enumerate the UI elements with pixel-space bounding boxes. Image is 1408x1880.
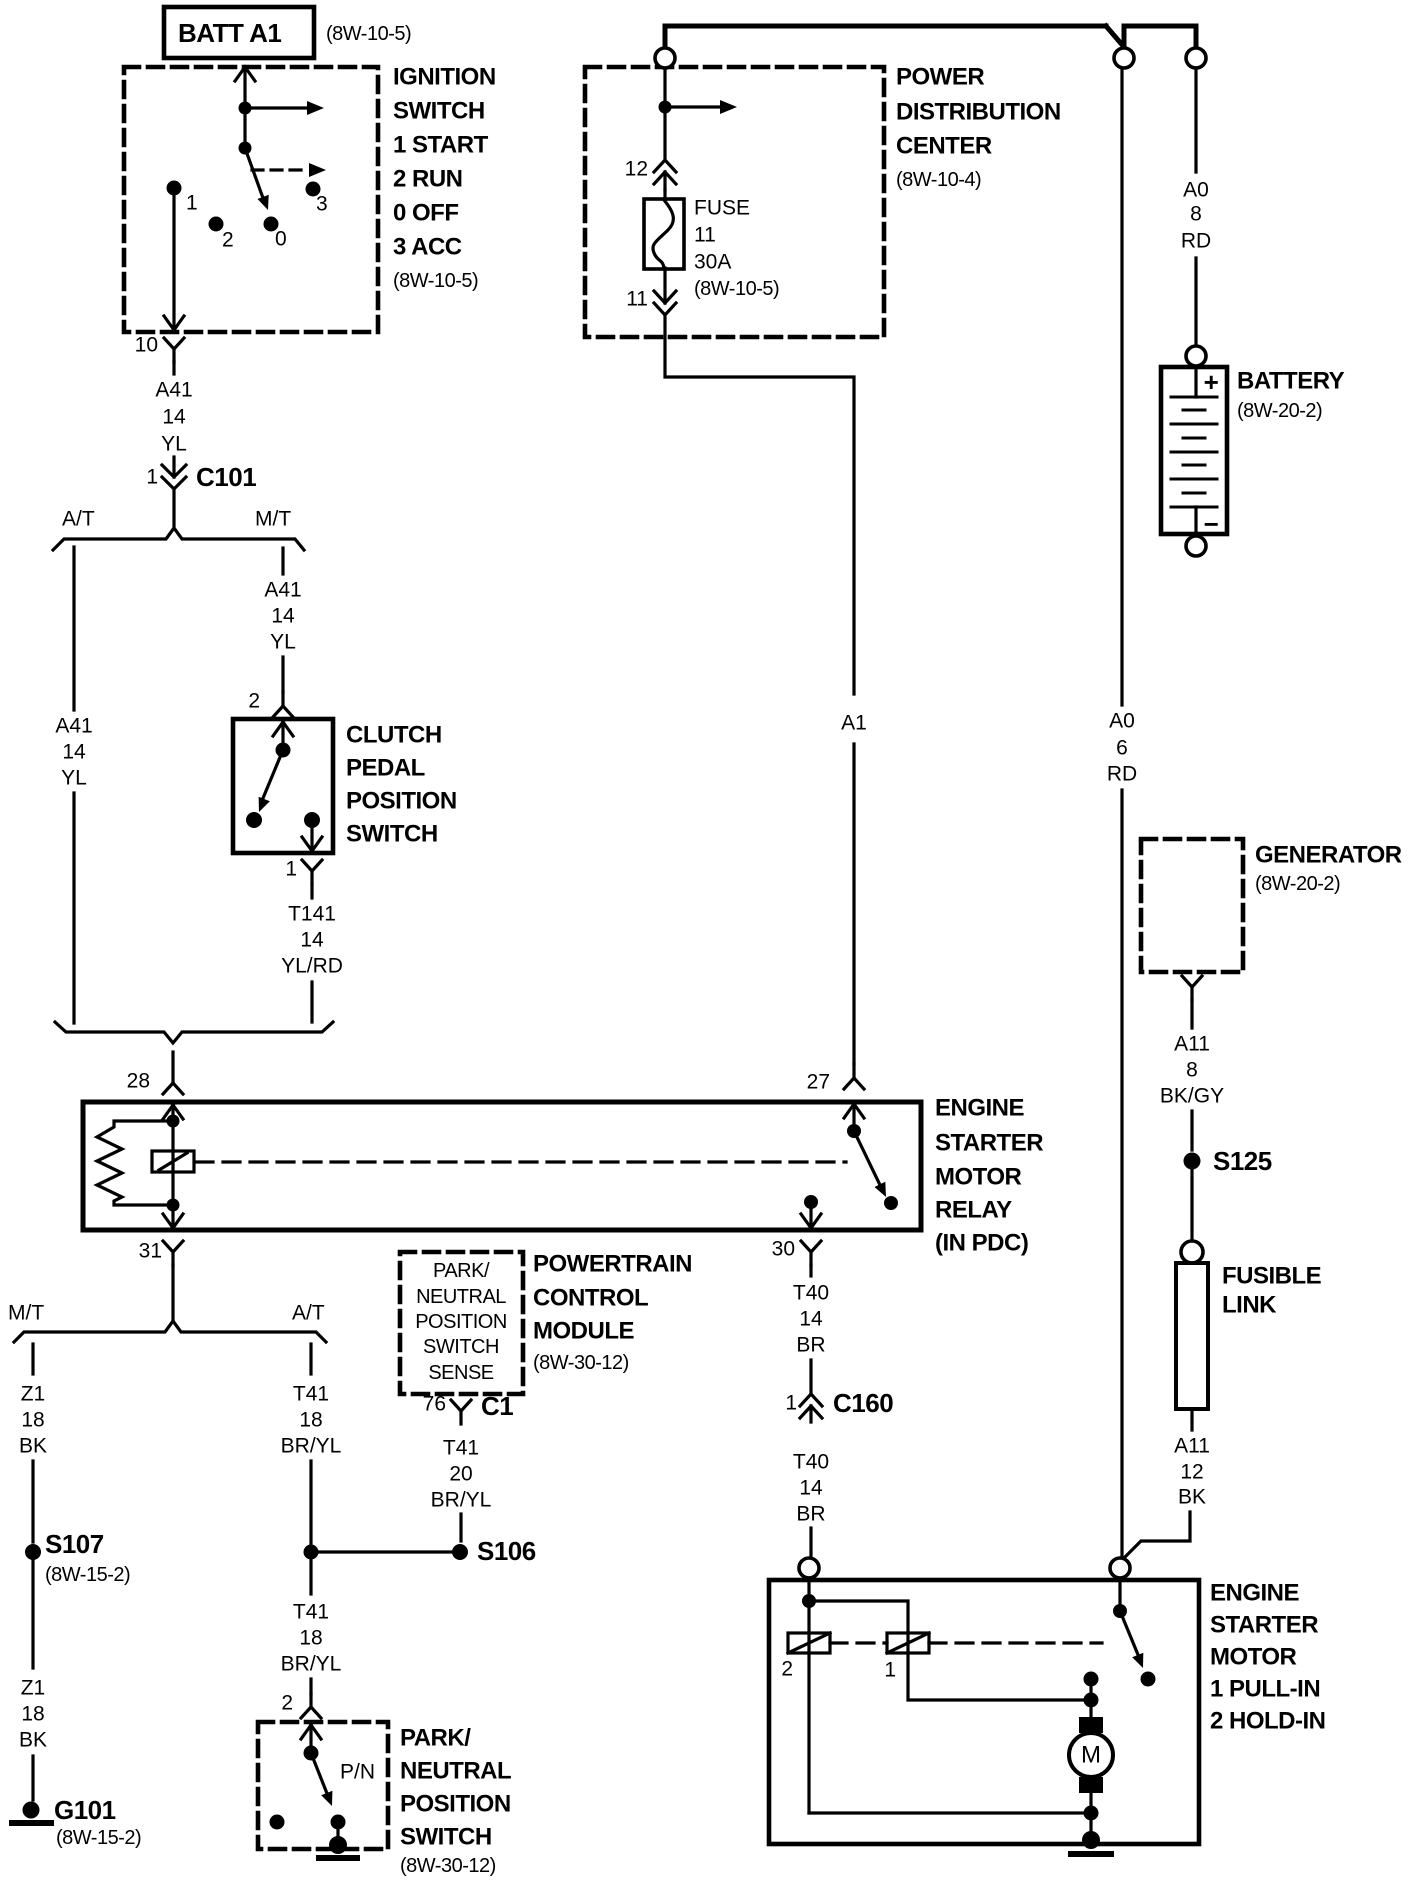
BATT A1 source box: [164, 7, 314, 58]
svg-text:18: 18: [299, 1409, 322, 1432]
svg-text:14: 14: [300, 929, 324, 952]
svg-text:30A: 30A: [694, 251, 731, 274]
relay switch entry arrow pin 27: [844, 1104, 864, 1128]
ignition switch wiper arm to position 0: [245, 148, 263, 198]
svg-text:YL: YL: [161, 433, 187, 456]
wire label Z1 18 BK lower: [19, 1677, 47, 1752]
wire to connector C101: [172, 457, 175, 477]
svg-text:(8W-15-2): (8W-15-2): [56, 1827, 141, 1849]
svg-text:28: 28: [127, 1070, 150, 1093]
wire T40 to connector C160: [809, 1360, 812, 1422]
wire ignition run output arrow: [245, 106, 308, 109]
svg-text:PARK/: PARK/: [400, 1725, 471, 1752]
wire bus segment to battery drop: [1124, 26, 1196, 47]
svg-text:S125: S125: [1213, 1146, 1272, 1176]
svg-text:1 START: 1 START: [393, 132, 489, 159]
wire A/T branch upper: [72, 547, 75, 710]
svg-text:18: 18: [299, 1627, 322, 1650]
node T41 junction at S106: [304, 1545, 319, 1560]
wire A0 8 RD lower segment: [1194, 258, 1197, 346]
svg-text:BR: BR: [796, 1334, 825, 1357]
connector pin 11 double chevron down: [654, 291, 676, 315]
clutch switch name label: [346, 722, 457, 848]
svg-text:(8W-10-5): (8W-10-5): [326, 23, 411, 45]
wire solenoid feed inside: [807, 1578, 810, 1598]
contact clutch switch lower left: [246, 812, 262, 828]
svg-text:GENERATOR: GENERATOR: [1255, 842, 1402, 869]
svg-text:Z1: Z1: [21, 1383, 46, 1406]
svg-text:CENTER: CENTER: [896, 133, 992, 160]
svg-text:IGNITION: IGNITION: [393, 64, 496, 91]
ignition switch name label: [393, 64, 496, 293]
wire label A41 14 YL A/T branch: [55, 715, 92, 790]
svg-text:ENGINE: ENGINE: [935, 1095, 1025, 1122]
motor M1: [1069, 1733, 1113, 1777]
svg-text:11: 11: [626, 288, 648, 311]
wire from junction to connector 12: [663, 110, 666, 190]
svg-text:BK: BK: [19, 1729, 47, 1752]
svg-text:BR: BR: [796, 1503, 825, 1526]
contact position 3 ACC: [306, 182, 321, 197]
svg-text:2: 2: [222, 229, 234, 252]
svg-text:(8W-20-2): (8W-20-2): [1255, 873, 1340, 895]
battery internal stem bottom: [1194, 507, 1197, 534]
battery box: [1161, 367, 1227, 534]
node battery bus connector ring left: [1114, 48, 1134, 68]
svg-text:POSITION: POSITION: [346, 788, 457, 815]
wire PDC bus corner drop: [663, 26, 668, 50]
svg-text:(8W-10-4): (8W-10-4): [896, 169, 981, 191]
svg-text:C1: C1: [481, 1391, 513, 1421]
PCM sense label: [415, 1260, 507, 1384]
clutch switch exit arrow pin 1: [302, 826, 322, 851]
wire pull-in coil branch: [809, 1601, 1084, 1700]
svg-text:CONTROL: CONTROL: [533, 1285, 648, 1312]
node solenoid feed junction: [802, 1594, 816, 1608]
wire generator output: [1190, 1000, 1193, 1028]
svg-text:18: 18: [21, 1409, 44, 1432]
wire label Z1 18 BK upper: [19, 1383, 47, 1458]
svg-text:A41: A41: [155, 379, 192, 402]
svg-text:DISTRIBUTION: DISTRIBUTION: [896, 99, 1061, 126]
svg-text:SWITCH: SWITCH: [393, 98, 485, 125]
wire M/T branch Z1 upper: [31, 1344, 34, 1374]
node ignition feed junction upper: [239, 102, 252, 115]
wire label T40 14 BR lower: [793, 1451, 829, 1526]
connector pin 1 Y terminal: [302, 860, 322, 884]
svg-text:T40: T40: [793, 1451, 829, 1474]
power distribution center PDC dashed box: [585, 67, 884, 337]
svg-text:STARTER: STARTER: [1210, 1612, 1318, 1639]
svg-text:(8W-30-12): (8W-30-12): [400, 1855, 496, 1877]
svg-text:2: 2: [248, 690, 260, 713]
node starter solenoid terminal ring: [799, 1558, 819, 1578]
svg-text:1 PULL-IN: 1 PULL-IN: [1210, 1676, 1320, 1703]
svg-text:12: 12: [625, 158, 648, 181]
PDC name label: [896, 64, 1061, 192]
relay name label: [935, 1095, 1043, 1257]
svg-text:1: 1: [785, 1392, 797, 1415]
svg-text:M/T: M/T: [8, 1302, 44, 1325]
connector pin 12 double chevron up: [654, 160, 676, 184]
relay coil wire through: [171, 1121, 174, 1205]
wire label T41 18 BR/YL lower: [281, 1601, 342, 1676]
resistor relay suppression: [97, 1121, 173, 1205]
svg-text:RD: RD: [1181, 230, 1211, 253]
svg-text:MOTOR: MOTOR: [935, 1164, 1022, 1191]
svg-text:14: 14: [799, 1477, 823, 1500]
svg-text:BATTERY: BATTERY: [1237, 368, 1345, 395]
svg-text:(8W-20-2): (8W-20-2): [1237, 400, 1322, 422]
svg-text:BK/GY: BK/GY: [1160, 1085, 1224, 1108]
connector pin 31 Y terminal: [163, 1241, 183, 1265]
connector pin 27 Y terminal inverted: [844, 1064, 864, 1089]
node relay coil top junction: [167, 1115, 180, 1128]
wire Z1 to ground G101: [31, 1756, 34, 1800]
connector generator Y terminal: [1182, 976, 1202, 1000]
svg-text:POWER: POWER: [896, 64, 984, 91]
svg-text:11: 11: [694, 224, 716, 247]
node motor return junction: [1084, 1806, 1099, 1821]
node splice S106: [452, 1544, 468, 1560]
svg-text:2: 2: [781, 1658, 793, 1681]
svg-text:10: 10: [135, 334, 158, 357]
ignition switch dashed box: [124, 67, 378, 332]
contact P/N switch left: [270, 1815, 285, 1830]
svg-text:30: 30: [772, 1238, 795, 1261]
svg-text:1: 1: [186, 192, 198, 215]
relay actuation dashed link: [196, 1160, 846, 1163]
svg-text:POSITION: POSITION: [415, 1311, 507, 1333]
connector pin 30 Y terminal: [801, 1241, 821, 1265]
svg-text:SENSE: SENSE: [428, 1362, 493, 1384]
wire fuse to connector 11: [663, 268, 666, 303]
connector pin 2 Y terminal inverted: [273, 692, 293, 717]
wire label A11 8 BK/GY: [1160, 1033, 1224, 1108]
relay pin 30 exit arrow: [801, 1207, 821, 1228]
wire label T141 14 YL/RD: [281, 903, 343, 978]
wire label A41 14 YL M/T branch: [264, 579, 301, 654]
svg-text:A41: A41: [264, 579, 301, 602]
svg-text:3: 3: [316, 193, 328, 216]
contact starter switch: [1141, 1672, 1156, 1687]
svg-text:BR/YL: BR/YL: [431, 1489, 492, 1512]
svg-text:MOTOR: MOTOR: [1210, 1644, 1297, 1671]
node clutch switch common contact: [276, 743, 291, 758]
wire hold-in coil return run: [809, 1811, 1091, 1814]
wire start contact to pin 10 exit arrow: [164, 195, 184, 330]
node PDC bus connector ring: [655, 48, 675, 68]
contact position 0 OFF: [264, 217, 279, 232]
svg-text:1: 1: [146, 466, 158, 489]
svg-text:1: 1: [884, 1659, 896, 1682]
contact clutch switch lower right: [304, 812, 320, 828]
solenoid coil 2 hold-in: [788, 1633, 830, 1653]
svg-text:(8W-30-12): (8W-30-12): [533, 1352, 629, 1374]
wire label A0 6 RD: [1107, 710, 1137, 786]
svg-text:−: −: [1204, 509, 1219, 539]
svg-text:A/T: A/T: [62, 508, 95, 531]
wire junction to splice S106: [311, 1550, 452, 1553]
wire T40 to starter solenoid: [809, 1528, 812, 1556]
svg-text:ENGINE: ENGINE: [1210, 1580, 1300, 1607]
svg-text:2 HOLD-IN: 2 HOLD-IN: [1210, 1708, 1326, 1735]
fusible link body: [1176, 1263, 1208, 1409]
wire label T40 14 BR upper: [793, 1282, 829, 1357]
svg-text:M: M: [1081, 1742, 1101, 1769]
svg-text:Z1: Z1: [21, 1677, 46, 1700]
node battery negative terminal ring: [1186, 536, 1206, 556]
svg-text:C101: C101: [196, 462, 256, 492]
svg-text:(IN PDC): (IN PDC): [935, 1230, 1028, 1257]
relay coil exit arrow pin 31: [163, 1209, 183, 1228]
svg-text:YL: YL: [270, 631, 296, 654]
node junction in PDC: [659, 101, 672, 114]
contact P/N switch output: [331, 1815, 346, 1830]
park/neutral position switch dashed box: [258, 1722, 388, 1849]
relay coil symbol: [152, 1151, 194, 1172]
svg-text:12: 12: [1180, 1461, 1203, 1484]
engine starter motor box: [769, 1580, 1199, 1844]
wire ignition output to label: [172, 362, 175, 374]
connector pin 10 Y terminal: [164, 338, 184, 362]
node relay switch pivot: [847, 1124, 861, 1138]
wire C1 to splice S106: [459, 1514, 462, 1541]
node relay pin 30 contact: [804, 1195, 818, 1209]
svg-text:14: 14: [271, 605, 295, 628]
wire A11 to splice S125: [1190, 1111, 1193, 1150]
clutch pedal position switch box: [233, 719, 333, 853]
wire pin 30 to label: [809, 1265, 812, 1276]
connector C101 double chevron down: [162, 465, 186, 489]
svg-text:POSITION: POSITION: [400, 1791, 511, 1818]
solenoid actuation dashed link: [830, 1641, 1102, 1644]
svg-text:2 RUN: 2 RUN: [393, 166, 463, 193]
svg-text:8: 8: [1190, 203, 1202, 226]
svg-text:(8W-10-5): (8W-10-5): [694, 278, 779, 300]
generator name label: [1255, 842, 1402, 896]
svg-text:8: 8: [1186, 1059, 1198, 1082]
ground G101: [23, 1802, 40, 1819]
wire pin 31 to lower split: [171, 1265, 174, 1320]
wire motor return: [1089, 1793, 1092, 1813]
fuse F11 body: [644, 199, 684, 269]
svg-text:T41: T41: [293, 1383, 329, 1406]
ground P/N switch case: [329, 1836, 347, 1854]
ignition accessory dashed arrow: [252, 168, 306, 171]
P/N switch entry arrow: [301, 1725, 321, 1747]
svg-text:T41: T41: [443, 1437, 479, 1460]
node relay coil bottom junction: [167, 1199, 180, 1212]
node starter switch pivot: [1113, 1604, 1127, 1618]
svg-text:M/T: M/T: [255, 508, 291, 531]
svg-text:BATT A1: BATT A1: [178, 18, 281, 48]
engine starter motor relay box: [83, 1102, 921, 1230]
starter switch arm: [1120, 1611, 1141, 1662]
svg-text:T41: T41: [293, 1601, 329, 1624]
svg-text:S107: S107: [45, 1529, 104, 1559]
svg-text:14: 14: [162, 406, 186, 429]
P/N switch wiper arm: [311, 1753, 328, 1796]
svg-text:BR/YL: BR/YL: [281, 1435, 342, 1458]
svg-text:0 OFF: 0 OFF: [393, 200, 459, 227]
motor M1 brush terminal bottom: [1079, 1777, 1103, 1793]
svg-text:(8W-15-2): (8W-15-2): [45, 1564, 130, 1586]
node splice S107: [25, 1544, 41, 1560]
wire hold-in coil branch: [807, 1601, 810, 1813]
svg-text:A1: A1: [841, 712, 867, 735]
fuse F11 element: [653, 200, 673, 268]
wire motor feed: [1089, 1679, 1092, 1720]
wire A0 6 RD long run to starter motor: [1120, 790, 1123, 1558]
wire merge to relay pin 28: [171, 1052, 174, 1083]
svg-text:T141: T141: [288, 903, 336, 926]
svg-text:31: 31: [139, 1240, 162, 1263]
svg-text:3 ACC: 3 ACC: [393, 234, 462, 261]
svg-text:POWERTRAIN: POWERTRAIN: [533, 1251, 692, 1278]
svg-text:RELAY: RELAY: [935, 1197, 1012, 1224]
wire M/T branch to clutch switch: [281, 657, 284, 692]
svg-text:SWITCH: SWITCH: [400, 1824, 492, 1851]
node motor feed contact: [1084, 1672, 1099, 1687]
P/N switch name label: [400, 1725, 511, 1878]
svg-text:20: 20: [449, 1463, 472, 1486]
svg-text:0: 0: [275, 228, 287, 251]
wire PDC feed into fuse branch: [663, 68, 666, 104]
svg-text:T40: T40: [793, 1282, 829, 1305]
svg-text:PEDAL: PEDAL: [346, 755, 425, 782]
contact relay switch output: [884, 1196, 898, 1210]
svg-text:PARK/: PARK/: [433, 1260, 490, 1282]
svg-text:BK: BK: [1178, 1486, 1206, 1509]
svg-text:FUSE: FUSE: [694, 197, 750, 220]
fusible link name label: [1222, 1263, 1322, 1319]
wire bus diagonal jog: [1106, 26, 1124, 47]
wire A0 6 RD main feed upper: [1120, 68, 1123, 705]
svg-text:FUSIBLE: FUSIBLE: [1222, 1263, 1322, 1290]
svg-text:76: 76: [423, 1393, 446, 1416]
ignition switch feed arrow to BATT A1: [235, 67, 255, 148]
node P/N switch common contact: [304, 1746, 319, 1761]
svg-text:A11: A11: [1174, 1033, 1210, 1056]
wire top power bus from PDC to battery feed: [665, 24, 1106, 29]
starter motor name label: [1210, 1580, 1326, 1735]
wire label A41 14 YL: [155, 379, 192, 456]
svg-text:SWITCH: SWITCH: [346, 821, 438, 848]
connector pin 2 Y terminal inverted P/N: [301, 1694, 321, 1718]
clutch switch wiper arm: [261, 750, 283, 803]
clutch switch entry arrow: [273, 722, 293, 744]
svg-text:1: 1: [285, 858, 297, 881]
contact position 1 START: [167, 181, 182, 196]
wire connector 12 to fuse: [663, 190, 666, 199]
wire P/N contact to case ground: [336, 1822, 339, 1843]
solenoid coil 1 pull-in: [887, 1633, 929, 1653]
svg-text:A0: A0: [1183, 179, 1209, 202]
svg-text:A0: A0: [1109, 710, 1135, 733]
powertrain control module name label: [533, 1251, 692, 1375]
contact position 2 RUN: [209, 217, 224, 232]
wire A1 down to starter relay pin 27: [852, 744, 855, 1064]
battery internal stem top: [1194, 367, 1197, 397]
wire clutch output lower: [310, 982, 313, 1022]
connector pin 28 Y terminal inverted: [163, 1083, 183, 1094]
svg-text:CLUTCH: CLUTCH: [346, 722, 442, 749]
wire label T41 20 BR/YL: [431, 1437, 492, 1512]
svg-text:LINK: LINK: [1222, 1292, 1277, 1319]
A/T M/T split bracket: [53, 528, 304, 550]
wire A/T branch T41 upper: [309, 1344, 312, 1374]
node splice S125: [1184, 1153, 1201, 1170]
A/T M/T merge bracket: [55, 1022, 333, 1043]
svg-text:(8W-10-5): (8W-10-5): [393, 270, 478, 292]
wire fusible link output: [1190, 1409, 1193, 1430]
connector C1 Y terminal: [451, 1400, 471, 1424]
wire T41 to S106 junction: [309, 1461, 312, 1545]
svg-text:BK: BK: [19, 1435, 47, 1458]
generator dashed box: [1141, 839, 1243, 972]
park/neutral position switch sense dashed box: [400, 1252, 523, 1394]
wire clutch output: [310, 884, 313, 898]
node pull-in coil to motor junction: [1084, 1693, 1099, 1708]
svg-text:+: +: [1204, 367, 1219, 397]
battery name label: [1237, 368, 1345, 423]
relay coil entry arrow pin 28: [163, 1105, 183, 1119]
svg-text:YL/RD: YL/RD: [281, 955, 343, 978]
svg-text:STARTER: STARTER: [935, 1130, 1043, 1157]
wire Z1 to splice S107: [31, 1461, 34, 1542]
wire label A11 12 BK: [1174, 1435, 1210, 1509]
wire junction down to P/N switch: [309, 1560, 312, 1594]
ground starter motor case: [1082, 1831, 1100, 1849]
wire to starter case ground: [1089, 1813, 1092, 1838]
svg-text:YL: YL: [61, 767, 87, 790]
connector C160 double chevron up: [800, 1394, 822, 1418]
svg-text:P/N: P/N: [340, 1761, 375, 1784]
svg-text:SWITCH: SWITCH: [423, 1336, 499, 1358]
svg-text:RD: RD: [1107, 763, 1137, 786]
svg-text:A/T: A/T: [292, 1302, 325, 1325]
fuse value label FUSE 11 30A (8W-10-5): [694, 197, 779, 301]
svg-text:27: 27: [807, 1071, 830, 1094]
wire label T41 18 BR/YL upper: [281, 1383, 342, 1458]
node starter battery stud ring: [1110, 1558, 1130, 1578]
relay switch arm: [854, 1131, 880, 1185]
M/T A/T lower split bracket: [14, 1321, 326, 1342]
svg-text:NEUTRAL: NEUTRAL: [400, 1758, 511, 1785]
svg-text:A41: A41: [55, 715, 92, 738]
svg-text:G101: G101: [54, 1795, 116, 1825]
wire A11 12 BK to starter stud: [1123, 1512, 1190, 1559]
wire branch arrow to other circuits: [665, 105, 722, 108]
wire A/T branch lower: [72, 793, 75, 1023]
wire A0 8 RD battery to bus: [1194, 68, 1197, 172]
wire S125 to fusible link: [1190, 1170, 1193, 1242]
wire S107 to Z1 lower label: [31, 1560, 34, 1668]
node battery bus connector ring right: [1186, 48, 1206, 68]
node battery positive terminal ring: [1186, 346, 1206, 366]
svg-text:NEUTRAL: NEUTRAL: [416, 1286, 506, 1308]
svg-text:C160: C160: [833, 1388, 893, 1418]
battery cell plates: [1171, 397, 1217, 507]
svg-text:14: 14: [62, 741, 86, 764]
wire battery stud inside: [1118, 1578, 1121, 1608]
svg-text:S106: S106: [477, 1536, 536, 1566]
svg-text:MODULE: MODULE: [533, 1318, 634, 1345]
wire T41 to pin 2 P/N switch: [309, 1679, 312, 1694]
svg-text:BR/YL: BR/YL: [281, 1653, 342, 1676]
wire fuse output leaving PDC: [665, 315, 854, 694]
